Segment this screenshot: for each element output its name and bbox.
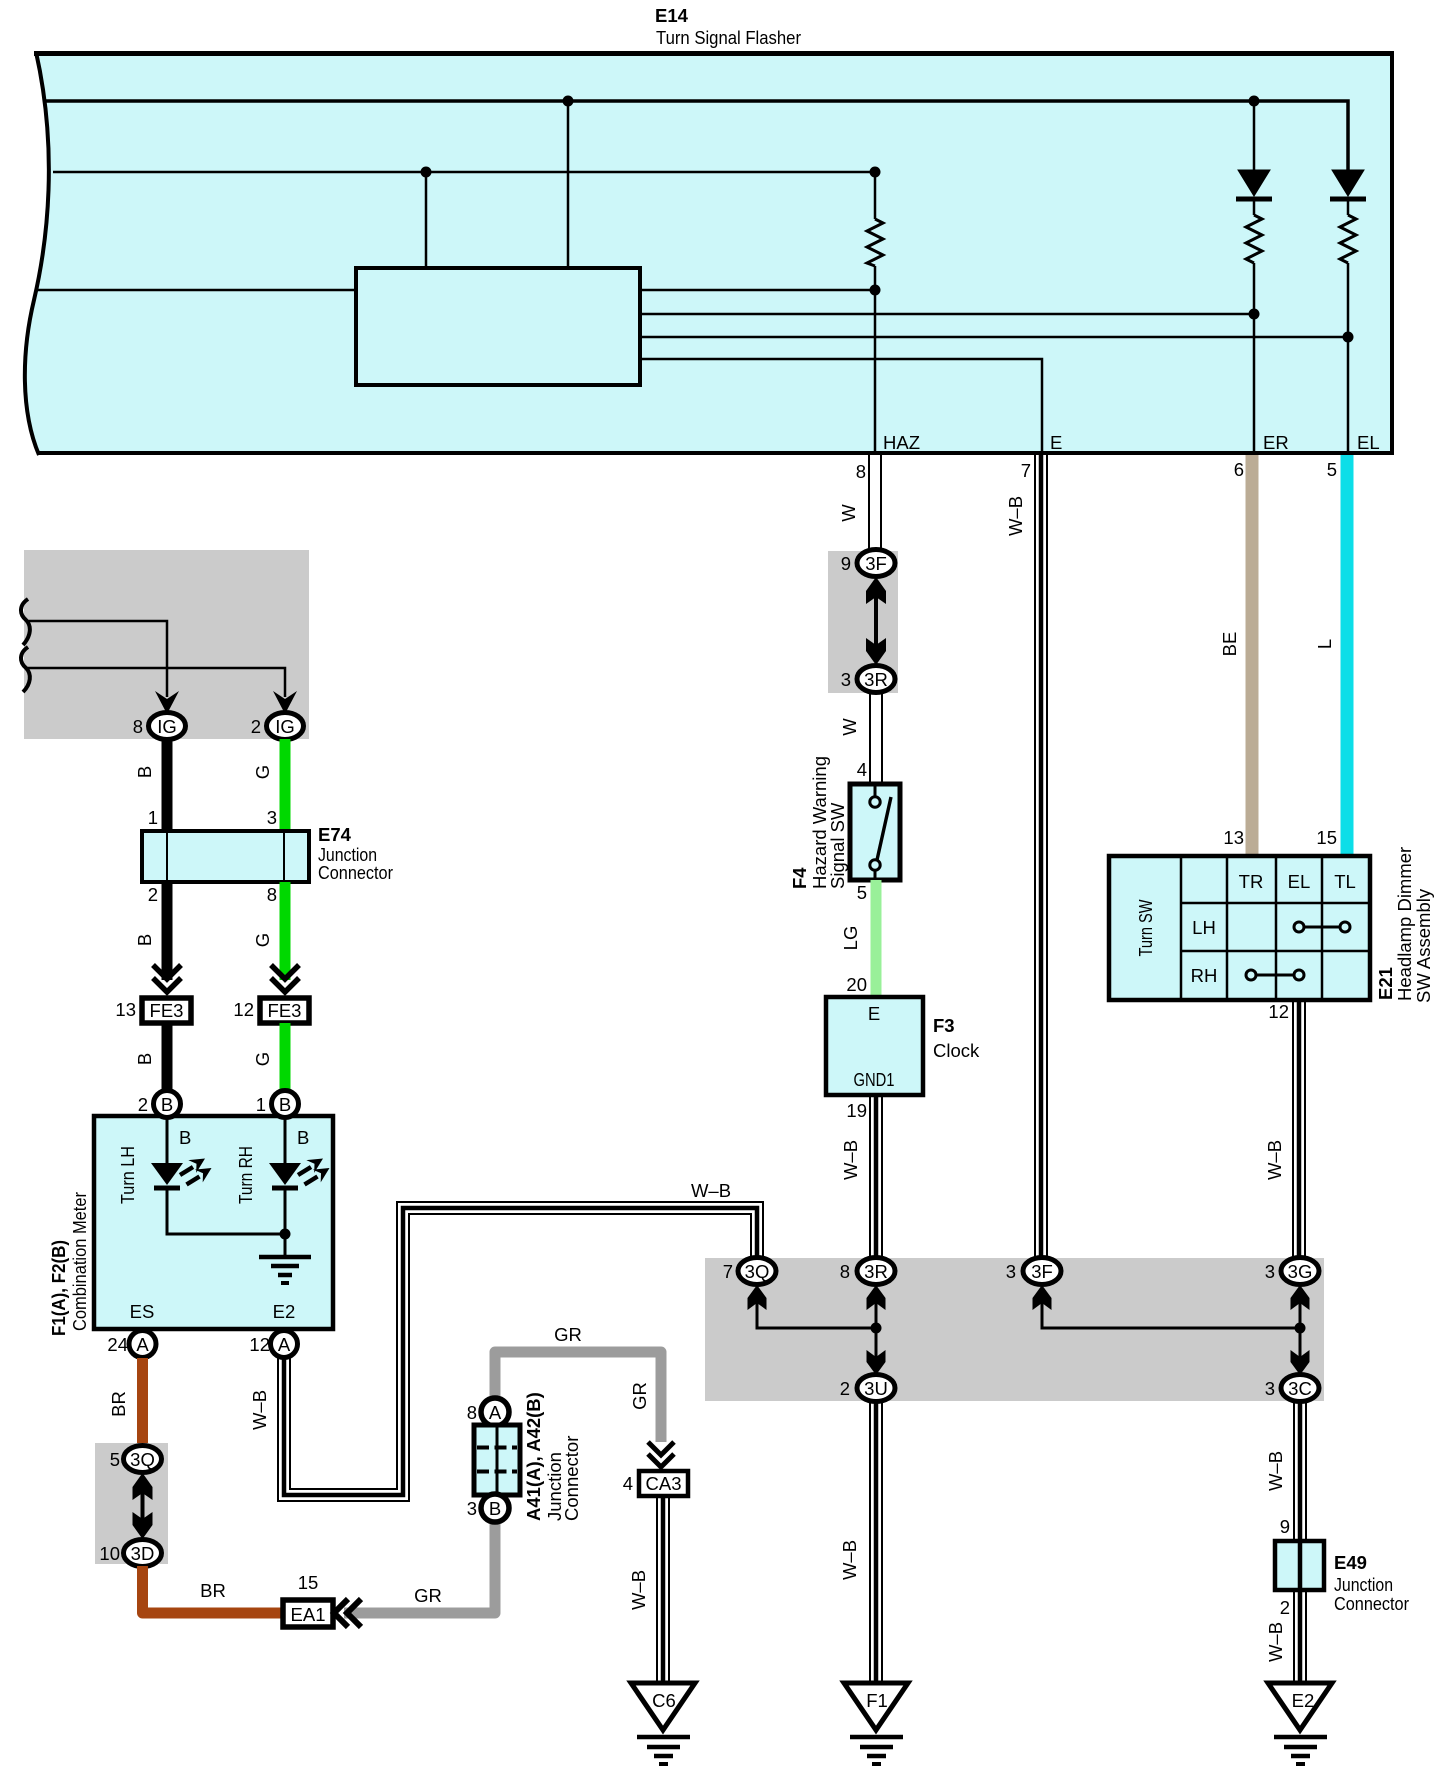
wire relay out y=337 — [640, 336, 1348, 339]
svg-text:E: E — [868, 1003, 880, 1024]
svg-text:13: 13 — [1223, 827, 1244, 848]
svg-text:3Q: 3Q — [130, 1449, 155, 1470]
resistor ER — [1246, 215, 1262, 263]
pin 3 (3G) — [1265, 1261, 1275, 1282]
pin 15 (EA1) — [298, 1572, 319, 1593]
switch contact RH row — [1246, 970, 1304, 980]
wire GR gray EA1 to A41 B — [344, 1522, 495, 1613]
svg-text:Signal SW: Signal SW — [827, 802, 848, 889]
lamp LED Turn RH — [269, 1159, 330, 1189]
shield gray box (power source area) — [24, 550, 309, 739]
svg-text:Turn LH: Turn LH — [117, 1146, 138, 1204]
switch F4 Hazard Warning Signal SW — [850, 784, 900, 880]
label Hazard Warning — [809, 756, 830, 889]
junction connector E74 — [142, 831, 309, 882]
svg-text:HAZ: HAZ — [883, 432, 920, 453]
svg-text:IG: IG — [275, 716, 295, 737]
label L — [1314, 639, 1335, 649]
wire W-B E21 to 3G — [1293, 1000, 1305, 1258]
svg-text:B: B — [489, 1498, 501, 1519]
component E14 Turn Signal Flasher box — [25, 52, 1394, 455]
label Signal SW — [827, 802, 848, 889]
wire ER branch vertical — [1253, 101, 1256, 455]
svg-text:EL: EL — [1357, 432, 1380, 453]
svg-text:C6: C6 — [652, 1690, 676, 1711]
connector CA3 — [639, 1471, 688, 1496]
wire B black E74 to FE3 — [162, 882, 173, 980]
wire relay out y=290 — [640, 289, 875, 292]
svg-text:BE: BE — [1219, 632, 1240, 657]
wire G green FE3 to meter — [280, 1023, 291, 1092]
label E2 — [273, 1301, 296, 1322]
label W-B (3C wire) — [1265, 1451, 1286, 1491]
pin 5 (E14 EL) — [1327, 459, 1337, 480]
svg-text:3: 3 — [267, 807, 277, 828]
connector 3R (hazard) — [857, 666, 895, 693]
pin 8 (E14 HAZ) — [856, 461, 866, 482]
pin 9 (3F) — [841, 553, 851, 574]
shield gray box 3F/3R — [828, 551, 898, 693]
label E21 — [1375, 967, 1396, 1000]
connector 3D — [124, 1540, 162, 1567]
svg-text:Combination Meter: Combination Meter — [69, 1192, 90, 1331]
wire HAZ vertical lower — [874, 266, 877, 455]
svg-text:W–B: W–B — [628, 1570, 649, 1610]
label W-B (E21 wire) — [1264, 1140, 1285, 1180]
ground E2 — [1268, 1683, 1332, 1764]
svg-text:W: W — [838, 504, 859, 522]
pin label HAZ — [883, 432, 920, 453]
lamp LED Turn LH — [151, 1159, 212, 1189]
connector FE3 right — [260, 998, 309, 1023]
svg-text:3F: 3F — [865, 553, 887, 574]
svg-text:Turn SW: Turn SW — [1135, 899, 1156, 956]
svg-text:FE3: FE3 — [268, 1000, 302, 1021]
wire B black IG to E74 — [162, 739, 173, 831]
node dot at 876,1328 — [871, 1323, 882, 1334]
svg-text:EA1: EA1 — [291, 1604, 326, 1625]
wire W white HAZ to 3F — [869, 455, 881, 550]
svg-text:9: 9 — [1280, 1516, 1290, 1537]
shield gray box 3Q/3D — [95, 1443, 168, 1564]
label A41(A), A42(B) — [523, 1392, 544, 1521]
svg-text:B: B — [179, 1127, 191, 1148]
continuation squiggle 1 — [21, 599, 30, 645]
pin 3 (3C) — [1265, 1378, 1275, 1399]
arrow into IG 2 — [273, 691, 297, 714]
pin 13 (E21) — [1223, 827, 1244, 848]
wire top bus y=101 — [46, 101, 1348, 171]
svg-text:W–B: W–B — [1265, 1451, 1286, 1491]
pin 2 (3U) — [840, 1378, 850, 1399]
wire left to relay y=290 — [35, 289, 358, 292]
svg-text:4: 4 — [623, 1473, 633, 1494]
pin 15 (E21) — [1316, 827, 1337, 848]
pin label E — [1050, 432, 1062, 453]
diode D2 (EL) — [1330, 170, 1366, 199]
label BE — [1219, 632, 1240, 657]
svg-text:W–B: W–B — [249, 1390, 270, 1430]
node dot at 426,172 — [421, 167, 432, 178]
node dot at 875,172 — [870, 167, 881, 178]
label B — [134, 766, 155, 778]
label F4 — [789, 867, 810, 889]
arrow into 3R — [867, 1285, 886, 1310]
junction connector E49 — [1275, 1541, 1324, 1590]
svg-text:3: 3 — [1006, 1261, 1016, 1282]
connector B (A41 pin 3) — [481, 1494, 509, 1522]
svg-text:2: 2 — [251, 716, 261, 737]
connector B (meter pin 2) — [154, 1091, 181, 1118]
node dot at 1254,101 — [1249, 96, 1260, 107]
svg-text:2: 2 — [840, 1378, 850, 1399]
label E49 — [1334, 1552, 1367, 1573]
wire W-B 3U to ground F1 — [870, 1401, 882, 1683]
label Turn LH — [117, 1146, 138, 1204]
svg-text:5: 5 — [110, 1449, 120, 1470]
svg-text:3: 3 — [1265, 1261, 1275, 1282]
svg-text:W–B: W–B — [691, 1180, 731, 1201]
label Junction (A41) — [544, 1452, 565, 1521]
pin 19 (F3) — [846, 1100, 867, 1121]
svg-text:G: G — [252, 765, 273, 779]
arrow pair between 3F and 3R — [866, 577, 886, 665]
switch contact LH row — [1294, 922, 1350, 932]
svg-text:3Q: 3Q — [745, 1261, 770, 1282]
pin 3 (A41 B) — [467, 1498, 477, 1519]
svg-text:7: 7 — [1021, 460, 1031, 481]
chevrons into FE3 13 — [153, 965, 181, 992]
label E74 — [318, 824, 352, 845]
label SW Assembly — [1413, 888, 1434, 1003]
wire W-B 3C to E49 — [1294, 1401, 1306, 1541]
svg-text:BR: BR — [200, 1580, 226, 1601]
connector 3Q — [124, 1446, 162, 1473]
label LH — [1192, 917, 1216, 938]
svg-text:3F: 3F — [1031, 1261, 1053, 1282]
wire EL vertical lower — [1347, 201, 1350, 455]
node dot at 568,101 — [563, 96, 574, 107]
svg-text:ES: ES — [130, 1301, 155, 1322]
svg-text:E14: E14 — [655, 5, 689, 26]
svg-text:20: 20 — [846, 974, 867, 995]
svg-text:BR: BR — [108, 1391, 129, 1417]
svg-text:GR: GR — [629, 1382, 650, 1410]
svg-text:8: 8 — [267, 884, 277, 905]
svg-text:GR: GR — [554, 1324, 582, 1345]
label G — [252, 1052, 273, 1066]
wire W-B clock to 3R band — [870, 1095, 882, 1258]
pin 12 (E21) — [1268, 1001, 1289, 1022]
pin 24 (meter A) — [107, 1334, 128, 1355]
pin 3 (3F band) — [1006, 1261, 1016, 1282]
label Turn SW — [1135, 899, 1156, 956]
label Junction Connector (E74) — [318, 844, 393, 883]
svg-text:8: 8 — [840, 1261, 850, 1282]
pin 3 (E74) — [267, 807, 277, 828]
svg-text:B: B — [134, 766, 155, 778]
switch assembly E21 Turn SW grid — [1109, 856, 1370, 1000]
label Headlamp Dimmer — [1394, 847, 1415, 1001]
wire 3G through junction to 3C — [1299, 1300, 1302, 1360]
svg-text:TR: TR — [1239, 871, 1264, 892]
chevrons into EA1 — [334, 1599, 361, 1627]
connector 3G — [1281, 1258, 1319, 1285]
svg-text:Connector: Connector — [318, 862, 393, 883]
connector A (A41 pin 8) — [481, 1398, 509, 1426]
label B — [134, 1053, 155, 1065]
arrow into 3U — [867, 1350, 886, 1375]
svg-text:G: G — [252, 933, 273, 947]
wire W white 3R to F4 — [870, 693, 882, 784]
svg-text:10: 10 — [99, 1543, 120, 1564]
svg-text:W–B: W–B — [1265, 1622, 1286, 1662]
svg-text:1: 1 — [148, 807, 158, 828]
label Clock — [933, 1040, 980, 1061]
svg-text:2: 2 — [148, 884, 158, 905]
label W-B (3U wire) — [839, 1540, 860, 1580]
pin 12 (meter A) — [249, 1334, 270, 1355]
svg-text:A41(A), A42(B): A41(A), A42(B) — [523, 1392, 544, 1521]
svg-text:15: 15 — [298, 1572, 319, 1593]
connector A (meter pin 12) — [271, 1331, 298, 1358]
connector IG (pin 2) — [267, 713, 304, 740]
pin 2 (E49) — [1280, 1597, 1290, 1618]
arrow into 3G — [1291, 1285, 1310, 1310]
connector 3C — [1281, 1375, 1319, 1402]
pin 2 (meter B) — [138, 1094, 148, 1115]
svg-text:E49: E49 — [1334, 1552, 1367, 1573]
wire second bus y=172 — [53, 171, 875, 174]
label Junction (E49) — [1334, 1574, 1393, 1595]
label W-B (clock wire) — [840, 1140, 861, 1180]
wire W-B CA3 to ground C6 — [657, 1496, 669, 1683]
wire from fuse to IG 2 — [27, 668, 285, 697]
svg-text:2: 2 — [1280, 1597, 1290, 1618]
svg-text:12: 12 — [249, 1334, 270, 1355]
label G — [252, 765, 273, 779]
svg-text:3R: 3R — [864, 669, 888, 690]
arrow into 3F band — [1033, 1285, 1052, 1310]
label Turn RH — [235, 1146, 256, 1204]
svg-text:1: 1 — [256, 1094, 266, 1115]
svg-text:6: 6 — [1234, 459, 1244, 480]
label W-B (E49 wire) — [1265, 1622, 1286, 1662]
svg-text:8: 8 — [467, 1402, 477, 1423]
label RH — [1191, 965, 1218, 986]
wire BR brown 3D to EA1 — [143, 1566, 283, 1613]
connector 3R (band) — [857, 1258, 895, 1285]
svg-text:LG: LG — [840, 926, 861, 951]
chevrons into CA3 — [648, 1442, 674, 1467]
svg-text:IG: IG — [157, 716, 177, 737]
pin 8 (A41 A) — [467, 1402, 477, 1423]
svg-text:W–B: W–B — [1264, 1140, 1285, 1180]
svg-text:13: 13 — [115, 999, 136, 1020]
wire meter internal left — [166, 1117, 169, 1163]
chevrons into FE3 12 — [271, 965, 299, 992]
svg-text:3G: 3G — [1288, 1261, 1313, 1282]
label Connector (A41) — [561, 1436, 582, 1521]
connector 3F (hazard) — [857, 550, 895, 577]
node dot at 1300,1328 — [1295, 1323, 1306, 1334]
svg-text:8: 8 — [856, 461, 866, 482]
label F1(A), F2(B) — [48, 1240, 69, 1336]
wire G green E74 to FE3 — [280, 882, 291, 980]
svg-text:12: 12 — [233, 999, 254, 1020]
svg-text:24: 24 — [107, 1334, 128, 1355]
svg-text:G: G — [252, 1052, 273, 1066]
pin 5 (F4) — [857, 882, 867, 903]
wire B black FE3 to meter — [162, 1023, 173, 1092]
connector EA1 — [283, 1600, 333, 1627]
svg-text:E74: E74 — [318, 824, 352, 845]
svg-text:12: 12 — [1268, 1001, 1289, 1022]
wire W-B E pin to 3F band — [1035, 455, 1047, 1258]
svg-text:3R: 3R — [864, 1261, 888, 1282]
label B — [134, 934, 155, 946]
svg-text:F3: F3 — [933, 1015, 955, 1036]
pin label EL — [1357, 432, 1380, 453]
component F3 Clock box — [826, 997, 923, 1095]
svg-text:B: B — [134, 1053, 155, 1065]
connector 3Q (band) — [738, 1258, 776, 1285]
label E14 — [655, 5, 689, 26]
svg-text:Turn Signal Flasher: Turn Signal Flasher — [656, 27, 801, 48]
connector B (meter pin 1) — [272, 1091, 299, 1118]
wire relay out y=359 to E pin — [640, 359, 1042, 455]
pin 3 (3R) — [841, 669, 851, 690]
label TR — [1239, 871, 1264, 892]
wire from fuse to IG 8 — [27, 621, 167, 697]
wire G green IG to E74 — [280, 739, 291, 831]
label GR (horizontal top) — [554, 1324, 582, 1345]
wire relay drop 2 — [425, 172, 428, 270]
label BR (horizontal) — [200, 1580, 226, 1601]
label W (lower) — [839, 718, 860, 736]
pin 13 (FE3) — [115, 999, 136, 1020]
svg-text:F1: F1 — [866, 1690, 888, 1711]
label W-B (horizontal) — [691, 1180, 731, 1201]
svg-text:3: 3 — [1265, 1378, 1275, 1399]
svg-text:9: 9 — [841, 553, 851, 574]
wire LG light green F4 to clock — [871, 880, 882, 997]
connector 3U — [857, 1375, 895, 1402]
svg-text:Connector: Connector — [1334, 1593, 1409, 1614]
resistor HAZ — [867, 219, 883, 266]
svg-text:F4: F4 — [789, 867, 810, 889]
pin 8 (3R band) — [840, 1261, 850, 1282]
svg-text:W–B: W–B — [840, 1140, 861, 1180]
svg-text:B: B — [279, 1094, 291, 1115]
pin 8 (E74 bottom) — [267, 884, 277, 905]
label TL — [1334, 871, 1356, 892]
svg-text:EL: EL — [1288, 871, 1311, 892]
pin 4 (F4) — [857, 759, 867, 780]
label EL (E21) — [1288, 871, 1311, 892]
svg-text:L: L — [1314, 639, 1335, 649]
svg-text:E2: E2 — [273, 1301, 296, 1322]
pin 6 (E14 ER) — [1234, 459, 1244, 480]
svg-text:RH: RH — [1191, 965, 1218, 986]
svg-text:W: W — [839, 718, 860, 736]
label ES — [130, 1301, 155, 1322]
svg-text:E2: E2 — [1292, 1690, 1315, 1711]
resistor EL — [1340, 215, 1356, 263]
pin 12 (FE3) — [233, 999, 254, 1020]
label GR (vertical) — [629, 1382, 650, 1410]
svg-text:FE3: FE3 — [150, 1000, 184, 1021]
svg-text:3U: 3U — [864, 1378, 888, 1399]
wire 3F to junction — [1042, 1300, 1300, 1328]
wire LED cathodes to common — [167, 1190, 285, 1234]
svg-text:B: B — [161, 1094, 173, 1115]
label W-B (CA3 wire) — [628, 1570, 649, 1610]
junction connector A41(A) A42(B) — [474, 1425, 520, 1495]
connector IG (pin 8) — [149, 713, 186, 740]
svg-text:3C: 3C — [1288, 1378, 1312, 1399]
component Combination Meter box F1(A) F2(B) — [94, 1116, 333, 1329]
node dot at 1348,337 — [1343, 332, 1354, 343]
arrow into 3C — [1291, 1350, 1310, 1375]
wire W-B from meter E2 (U shape) — [278, 1202, 763, 1501]
pin 2 (IG) — [251, 716, 261, 737]
label Turn Signal Flasher — [656, 27, 801, 48]
svg-text:B: B — [297, 1127, 309, 1148]
svg-text:LH: LH — [1192, 917, 1216, 938]
label B inside meter left — [179, 1127, 191, 1148]
svg-text:A: A — [136, 1334, 149, 1355]
svg-text:7: 7 — [723, 1261, 733, 1282]
ground C6 — [631, 1683, 695, 1764]
wire L cyan EL to E21 — [1341, 455, 1354, 856]
pin 1 (meter B) — [256, 1094, 266, 1115]
pin 20 (F3) — [846, 974, 867, 995]
label B inside meter right — [297, 1127, 309, 1148]
arrow into 3Q — [748, 1285, 767, 1310]
connector 3F (band) — [1023, 1258, 1061, 1285]
svg-text:5: 5 — [1327, 459, 1337, 480]
ground F1 — [844, 1683, 908, 1764]
pin 7 (E14 E) — [1021, 460, 1031, 481]
relay box inside E14 — [356, 268, 640, 385]
pin 1 (E74) — [148, 807, 158, 828]
svg-text:8: 8 — [133, 716, 143, 737]
svg-text:SW Assembly: SW Assembly — [1413, 888, 1434, 1003]
svg-text:3: 3 — [841, 669, 851, 690]
label Combination Meter — [69, 1192, 90, 1331]
node dot at 1254,314 — [1249, 309, 1260, 320]
label LG — [840, 926, 861, 951]
wire 3Q to junction — [757, 1300, 876, 1328]
shield gray band (floor harness) — [705, 1258, 1324, 1401]
svg-text:Headlamp Dimmer: Headlamp Dimmer — [1394, 847, 1415, 1001]
svg-text:19: 19 — [846, 1100, 867, 1121]
svg-text:5: 5 — [857, 882, 867, 903]
svg-text:3D: 3D — [131, 1543, 155, 1564]
continuation squiggle 2 — [21, 647, 30, 692]
label G — [252, 933, 273, 947]
pin label ER — [1263, 432, 1289, 453]
connector FE3 left — [142, 998, 191, 1023]
label GR (horizontal left) — [414, 1585, 442, 1606]
svg-text:Junction: Junction — [1334, 1574, 1393, 1595]
svg-text:15: 15 — [1316, 827, 1337, 848]
pin 9 (E49) — [1280, 1516, 1290, 1537]
svg-text:TL: TL — [1334, 871, 1356, 892]
svg-text:CA3: CA3 — [646, 1473, 682, 1494]
svg-text:3: 3 — [467, 1498, 477, 1519]
